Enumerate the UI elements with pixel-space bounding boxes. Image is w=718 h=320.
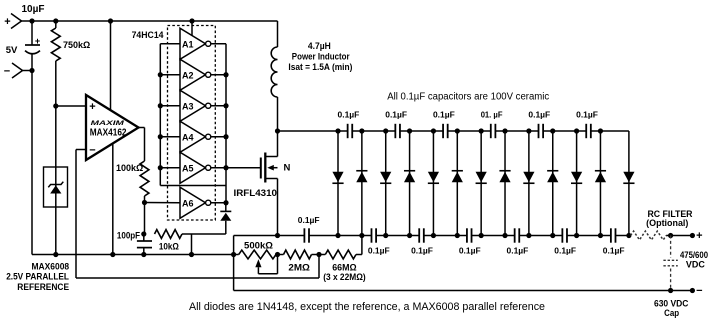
junction top row col5	[431, 128, 436, 133]
svg-text:−: −	[696, 285, 702, 297]
op-amp V- pin wire	[112, 143, 114, 255]
diode D5 1N4148	[404, 172, 415, 183]
svg-text:Power Inductor: Power Inductor	[292, 52, 350, 62]
wire ladder column 2	[361, 131, 363, 236]
svg-text:0.1µF: 0.1µF	[433, 110, 455, 119]
transistor Q1 IRFL4310	[260, 158, 262, 179]
wire minus rail down-left	[31, 71, 33, 255]
svg-text:A4: A4	[182, 132, 194, 142]
junction input bus A4	[158, 134, 163, 139]
svg-text:0.1µF: 0.1µF	[459, 247, 481, 256]
junction bottom row col3	[383, 233, 388, 238]
capacitor top C6 0.1uF	[490, 124, 492, 138]
svg-text:10kΩ: 10kΩ	[159, 241, 179, 251]
inverter A2	[180, 59, 206, 90]
junction bottom row col10	[550, 233, 555, 238]
wire ladder column 7	[480, 131, 482, 236]
junction bottom row col4	[407, 233, 412, 238]
svg-text:2MΩ: 2MΩ	[288, 263, 310, 273]
op-amp V+ pin wire	[110, 21, 112, 111]
svg-text:0.1µF: 0.1µF	[338, 110, 360, 119]
junction top row col4	[407, 128, 412, 133]
wire ladder column 11	[576, 131, 578, 236]
junction input bus A3	[158, 103, 163, 108]
svg-text:750kΩ: 750kΩ	[63, 40, 90, 50]
junction bottom row col11	[574, 233, 579, 238]
capacitor 100pF	[143, 234, 145, 241]
svg-text:−: −	[89, 145, 95, 157]
svg-text:10µF: 10µF	[22, 4, 45, 15]
svg-text:All diodes are 1N4148, except: All diodes are 1N4148, except the refere…	[189, 301, 545, 313]
wire gate drive	[226, 167, 261, 169]
junction bottom row col12	[598, 233, 603, 238]
junction top rail / 74HC14 Vcc	[189, 18, 194, 23]
wire RC tap to rail	[191, 234, 193, 255]
diode D12 1N4148	[571, 172, 582, 183]
junction top row col12	[598, 128, 603, 133]
svg-text:A6: A6	[182, 198, 194, 208]
junction ladder drop / rail	[231, 252, 236, 257]
svg-text:+: +	[4, 16, 10, 28]
wire ladder column 8	[504, 131, 506, 236]
svg-text:0.1µF: 0.1µF	[385, 110, 407, 119]
junction 100pF top	[141, 231, 146, 236]
74HC14 package box	[168, 26, 216, 221]
wire 10k to diode	[182, 233, 226, 235]
capacitor bottom C10 0.1uF	[370, 228, 372, 242]
junction top rail / 750k	[53, 18, 58, 23]
junction 100pF bottom / rail	[141, 252, 146, 257]
capacitor top C8 0.1uF	[585, 124, 587, 138]
inverter A1	[180, 28, 206, 59]
junction bottom row col7	[479, 233, 484, 238]
diode D13 1N4148	[595, 172, 606, 183]
junction pot / 2M	[275, 252, 280, 257]
diode D7 1N4148	[452, 172, 463, 183]
junction bottom row col2	[359, 233, 364, 238]
zener diode MAX6008	[50, 185, 61, 193]
wire ladder column 5	[432, 131, 434, 236]
capacitor bottom C14 0.1uF	[561, 228, 563, 242]
op-amp U1 MAX4162	[86, 95, 139, 160]
junction RC filter output	[668, 233, 673, 238]
junction top row col2	[359, 128, 364, 133]
wire ladder column 3	[385, 131, 387, 236]
junction top row col6	[455, 128, 460, 133]
diode D4 1N4148	[380, 172, 391, 183]
svg-text:0.1µF: 0.1µF	[368, 247, 390, 256]
capacitor top C4 0.1uF	[394, 124, 396, 138]
inverter A5	[180, 152, 206, 183]
svg-text:4.7µH: 4.7µH	[308, 41, 331, 51]
wire opamp + input	[56, 105, 86, 107]
junction output bus A2	[223, 72, 228, 77]
wire 100k to 100pF	[144, 203, 146, 235]
svg-text:VDC: VDC	[686, 259, 706, 269]
capacitor top C3 0.1uF	[347, 124, 349, 138]
wire ladder column 9	[528, 131, 530, 236]
capacitor bottom C11 0.1uF	[418, 228, 420, 242]
svg-text:N: N	[284, 163, 291, 174]
junction 750k / opamp + input	[53, 103, 58, 108]
junction input bus A5	[158, 165, 163, 170]
wire top rail	[22, 20, 278, 22]
diode D6 1N4148	[428, 172, 439, 183]
junction input bus A2	[158, 72, 163, 77]
junction top row col1	[335, 128, 340, 133]
svg-text:Cap: Cap	[664, 308, 680, 318]
resistor 750k	[55, 21, 57, 28]
svg-text:All 0.1µF capacitors are 100V: All 0.1µF capacitors are 100V ceramic	[387, 91, 549, 102]
wire ladder top row	[278, 130, 348, 132]
junction top row col11	[574, 128, 579, 133]
svg-text:(3 x 22MΩ): (3 x 22MΩ)	[323, 272, 366, 282]
junction output bus A4	[223, 134, 228, 139]
svg-text:01. µF: 01. µF	[481, 110, 503, 119]
svg-text:A3: A3	[182, 101, 194, 111]
wire 74HC14 Vcc	[191, 21, 193, 36]
output + terminal	[690, 233, 695, 238]
input + terminal	[11, 14, 22, 22]
junction bottom row col8	[502, 233, 507, 238]
wire 750k to reference	[55, 106, 57, 255]
wire A6 input	[145, 202, 181, 204]
wire inverter output bus	[225, 44, 227, 203]
junction 2M / 66M / feedback	[316, 252, 321, 257]
junction output bus A3	[223, 103, 228, 108]
inverter A3	[180, 90, 206, 121]
junction top row col7	[479, 128, 484, 133]
junction 100k / A6 input	[142, 200, 147, 205]
diode D8 1N4148	[476, 172, 487, 183]
svg-text:0.1µF: 0.1µF	[507, 247, 529, 256]
svg-text:IRFL4310: IRFL4310	[234, 188, 278, 198]
resistor 66M	[319, 254, 325, 256]
svg-text:0.1µF: 0.1µF	[298, 216, 320, 225]
junction bottom row col9	[526, 233, 531, 238]
output - terminal	[690, 288, 695, 293]
svg-text:5V: 5V	[6, 45, 18, 56]
wire ladder column 12	[599, 131, 601, 236]
diode D3 1N4148	[356, 172, 367, 183]
wire ladder column 1	[337, 131, 339, 236]
junction bottom row col5	[431, 233, 436, 238]
wire ladder bottom row	[234, 235, 305, 237]
diode D10 1N4148	[523, 172, 534, 183]
svg-text:2.5V PARALLEL: 2.5V PARALLEL	[6, 272, 69, 282]
capacitor 10uF	[31, 21, 33, 45]
diode D14 1N4148	[623, 172, 634, 183]
input - terminal	[12, 63, 23, 71]
diode D9 1N4148	[499, 172, 510, 183]
junction source node bottom row	[275, 233, 280, 238]
svg-text:+: +	[89, 101, 95, 113]
junction bottom row col1	[335, 233, 340, 238]
wire inverter input bus	[159, 44, 161, 186]
svg-text:A5: A5	[182, 163, 194, 173]
svg-text:−: −	[4, 66, 10, 78]
svg-text:A2: A2	[182, 70, 194, 80]
wire opamp output	[139, 127, 145, 129]
capacitor top C7 0.1uF	[538, 124, 540, 138]
junction top row col8	[502, 128, 507, 133]
svg-text:0.1µF: 0.1µF	[554, 247, 576, 256]
junction top rail / 10uF	[29, 18, 34, 23]
svg-text:MAX6008: MAX6008	[32, 261, 70, 271]
svg-text:REFERENCE: REFERENCE	[17, 282, 69, 292]
inverter A6	[180, 187, 206, 218]
svg-text:100pF: 100pF	[117, 230, 141, 240]
junction reference / rail	[53, 252, 58, 257]
svg-text:MAXIM: MAXIM	[91, 120, 125, 127]
resistor 2M	[276, 254, 284, 256]
capacitor bottom C13 0.1uF	[514, 228, 516, 242]
resistor 100k	[140, 161, 149, 196]
svg-text:MAX4162: MAX4162	[90, 127, 127, 138]
diode D11 1N4148	[547, 172, 558, 183]
reference MAX6008 box	[44, 167, 68, 207]
svg-text:+: +	[35, 36, 40, 46]
svg-text:500kΩ: 500kΩ	[244, 241, 273, 251]
junction - terminal / cap bottom	[29, 68, 34, 73]
svg-text:0.1µF: 0.1µF	[576, 110, 598, 119]
capacitor top C5 0.1uF	[442, 124, 444, 138]
svg-text:100kΩ: 100kΩ	[116, 163, 143, 173]
wire ladder column 10	[552, 131, 554, 236]
junction top row col9	[526, 128, 531, 133]
wire opamp - input feedback	[76, 149, 86, 151]
junction V- / rail	[110, 252, 115, 257]
svg-text:0.1µF: 0.1µF	[528, 110, 550, 119]
wire output ground rail	[234, 290, 693, 292]
wire ladder column 13	[628, 131, 630, 236]
resistor RC filter (dotted)	[631, 231, 667, 240]
inverter A4	[180, 121, 206, 152]
junction top row col3	[383, 128, 388, 133]
svg-text:A1: A1	[182, 39, 194, 49]
svg-text:0.1µF: 0.1µF	[411, 247, 433, 256]
resistor 10k	[155, 230, 183, 239]
inductor L1 4.7uH	[277, 21, 279, 47]
diode D2 1N4148	[332, 172, 343, 183]
capacitor optional (dashed)	[670, 236, 672, 258]
svg-text:0.1µF: 0.1µF	[603, 247, 625, 256]
junction top row col10	[550, 128, 555, 133]
wire reference rail	[32, 254, 239, 256]
wire ladder column 4	[409, 131, 411, 236]
svg-text:66MΩ: 66MΩ	[332, 263, 356, 273]
capacitor bottom C15 0.1uF	[610, 228, 612, 242]
junction optional cap / ground	[668, 288, 673, 293]
junction output bus A5	[223, 165, 228, 170]
svg-text:(Optional): (Optional)	[646, 218, 688, 228]
junction bottom row col6	[455, 233, 460, 238]
svg-text:Isat = 1.5A (min): Isat = 1.5A (min)	[288, 62, 352, 72]
capacitor bottom C2a 0.1uF	[303, 228, 305, 242]
capacitor bottom C12 0.1uF	[466, 228, 468, 242]
junction top rail / opamp V+	[108, 18, 113, 23]
wire ladder column 6	[456, 131, 458, 236]
potentiometer 500k	[239, 250, 276, 259]
wire ladder bottom to output ground	[233, 236, 235, 291]
junction bottom row col13	[626, 233, 631, 238]
junction output bus A6	[223, 200, 228, 205]
junction RC tap / rail	[189, 252, 194, 257]
svg-text:74HC14: 74HC14	[132, 30, 164, 40]
diode A6 output 1N4148	[225, 203, 227, 212]
junction drain node	[275, 128, 280, 133]
svg-text:+: +	[696, 230, 702, 242]
